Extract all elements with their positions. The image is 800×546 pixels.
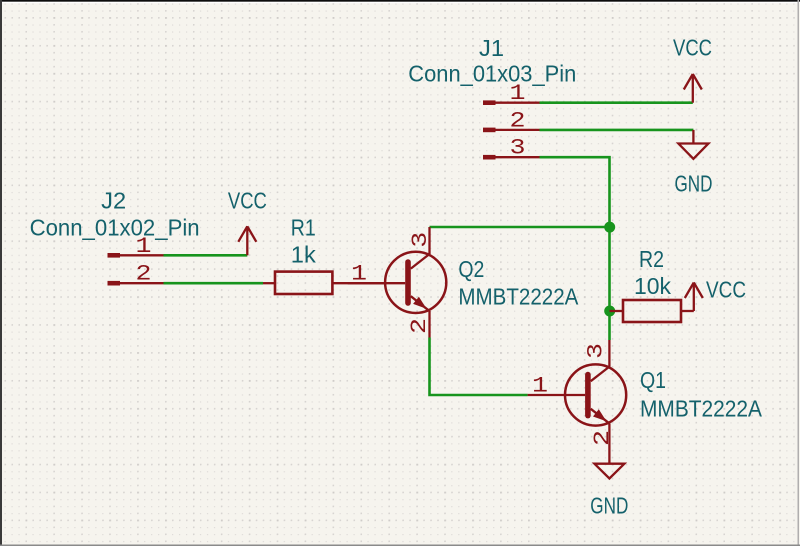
svg-text:2: 2 — [590, 430, 615, 446]
svg-text:J1: J1 — [479, 35, 504, 61]
power symbol VCC at J2 — [228, 188, 267, 256]
svg-text:VCC: VCC — [706, 277, 746, 303]
junction collector net — [604, 222, 615, 233]
svg-text:1k: 1k — [291, 242, 317, 268]
wire Q2 collector to net — [430, 226, 610, 229]
transistor Q2 — [348, 227, 447, 338]
transistor Q1 — [528, 340, 627, 450]
svg-text:2: 2 — [510, 108, 526, 133]
connector J2 pin 1 — [108, 234, 164, 259]
svg-text:2: 2 — [407, 318, 432, 334]
svg-text:J2: J2 — [101, 187, 126, 213]
svg-text:Q2: Q2 — [458, 256, 484, 282]
connector J1 pin 3 — [483, 136, 540, 161]
svg-text:3: 3 — [408, 232, 433, 248]
wire Q2 emitter to Q1 base — [430, 338, 528, 396]
connector J1 pin 1 — [483, 81, 540, 106]
resistor R2 — [610, 300, 694, 322]
wire J2 pin1 to VCC — [164, 254, 248, 257]
svg-text:R1: R1 — [291, 214, 316, 240]
wire J1 pin1 to VCC — [540, 101, 693, 104]
svg-text:1: 1 — [510, 81, 526, 106]
wire J1 pin2 to GND — [540, 129, 694, 132]
svg-text:1: 1 — [136, 234, 152, 259]
wire J2 pin2 to R1 — [164, 282, 264, 285]
svg-text:GND: GND — [675, 171, 713, 197]
wire J1 pin3 to collector net — [540, 157, 610, 340]
svg-text:GND: GND — [590, 492, 628, 518]
connector J2 pin 2 — [108, 262, 164, 287]
power symbol VCC at R2 — [685, 277, 746, 312]
svg-text:Conn_01x03_Pin: Conn_01x03_Pin — [408, 61, 576, 87]
svg-text:2: 2 — [136, 262, 152, 287]
svg-text:Conn_01x02_Pin: Conn_01x02_Pin — [30, 215, 200, 241]
svg-text:1: 1 — [532, 374, 548, 399]
power symbol GND right — [675, 130, 713, 197]
svg-text:MMBT2222A: MMBT2222A — [458, 283, 579, 309]
power symbol VCC top right — [673, 35, 712, 103]
svg-text:10k: 10k — [634, 273, 671, 299]
svg-text:MMBT2222A: MMBT2222A — [640, 396, 763, 422]
junction R2 net — [604, 306, 615, 317]
connector J1 pin 2 — [483, 108, 540, 133]
power symbol GND bottom — [590, 450, 628, 518]
svg-text:VCC: VCC — [673, 35, 712, 61]
svg-text:Q1: Q1 — [640, 367, 666, 393]
svg-text:3: 3 — [510, 136, 526, 161]
svg-text:R2: R2 — [639, 246, 664, 272]
svg-text:1: 1 — [351, 262, 367, 287]
resistor R1 — [263, 272, 385, 294]
svg-text:VCC: VCC — [228, 188, 267, 214]
svg-text:3: 3 — [583, 343, 608, 359]
